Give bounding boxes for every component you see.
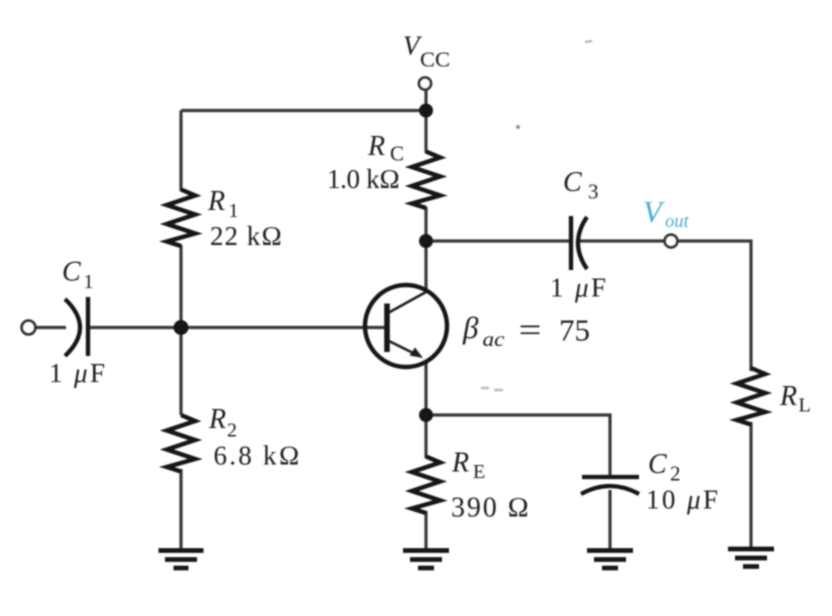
node collector junction dot [419,234,433,248]
wire RE to ground [424,511,427,551]
svg-text:C: C [648,449,667,480]
label Vout [643,194,690,232]
node base junction dot [174,320,189,335]
label RC [367,131,404,166]
resistor R2 [167,415,195,472]
wire Vout terminal to RL corner [678,241,752,371]
resistor RC [412,152,440,209]
svg-text:R: R [451,448,469,479]
wire left column R1 top [179,111,182,192]
svg-text:2: 2 [670,462,681,486]
svg-text:1.0 kΩ: 1.0 kΩ [327,164,400,194]
svg-text:1 μF: 1 μF [49,358,105,388]
svg-text:22 kΩ: 22 kΩ [210,221,282,251]
label RE [451,448,485,484]
svg-text:75: 75 [559,313,590,348]
wire emitter node to C2 corner [426,415,610,477]
wire left column R2 to ground [179,469,182,551]
ground under RE [403,551,449,569]
resistor RL [737,368,765,425]
svg-text:C: C [62,257,81,288]
label beta ac = 75 [462,310,590,351]
input terminal (open circle) [22,321,36,335]
svg-text:E: E [473,461,485,483]
svg-text:R: R [367,131,385,162]
label C1 [62,257,94,294]
resistor R1 [167,190,195,247]
ground under R2 [159,551,204,569]
svg-text:1: 1 [229,200,239,222]
svg-text:R: R [779,381,797,412]
svg-text:C: C [390,142,404,166]
label R1 [207,186,239,222]
wire base from node to transistor [181,326,388,329]
node junction dot top rail [419,104,433,118]
transistor Q1 [365,285,447,367]
svg-text:2: 2 [227,420,237,442]
wire top rail from R1 column to Vcc column [181,109,426,112]
wire RC to transistor collector [424,207,427,293]
wire RL to ground [749,422,752,550]
svg-text:V: V [643,194,665,229]
label Vcc [403,31,450,72]
label C2 [648,449,681,486]
label C3 [563,167,599,204]
capacitor C1 [65,297,88,356]
label RL [779,381,811,417]
svg-text:out: out [665,212,690,232]
wire C2 to ground [608,490,611,551]
svg-text:R: R [207,186,225,217]
wire transistor emitter down through node to RE [424,361,427,458]
wire C3 to Vout terminal [579,239,665,242]
wire Vcc terminal down to RC [424,90,427,153]
svg-text:6.8 kΩ: 6.8 kΩ [214,441,300,471]
Vcc terminal (open circle) [419,78,431,90]
svg-text:1 μF: 1 μF [550,273,606,303]
svg-text:ac: ac [483,327,506,351]
capacitor C3 [571,216,587,270]
svg-text:C: C [563,167,582,198]
wire collector node to C3 [426,239,569,242]
resistor RE [412,457,440,514]
svg-text:1: 1 [84,271,94,293]
svg-text:L: L [799,395,811,417]
wire C1 to base node [90,326,181,329]
Vout terminal (open circle) [665,235,678,248]
wire left column between R1 and R2 [179,245,182,415]
wire input terminal to C1 [35,326,66,329]
ground under RL [728,549,774,567]
svg-text:CC: CC [420,48,450,72]
svg-text:=: = [519,312,542,349]
svg-text:10 μF: 10 μF [646,485,718,515]
ground under C2 [587,551,633,569]
svg-text:R: R [208,404,226,435]
label R2 [208,404,237,442]
svg-text:3: 3 [588,180,599,204]
svg-text:β: β [462,310,479,345]
node emitter junction dot [419,408,433,422]
capacitor C2 [581,477,639,494]
svg-text:390 Ω: 390 Ω [451,493,529,524]
